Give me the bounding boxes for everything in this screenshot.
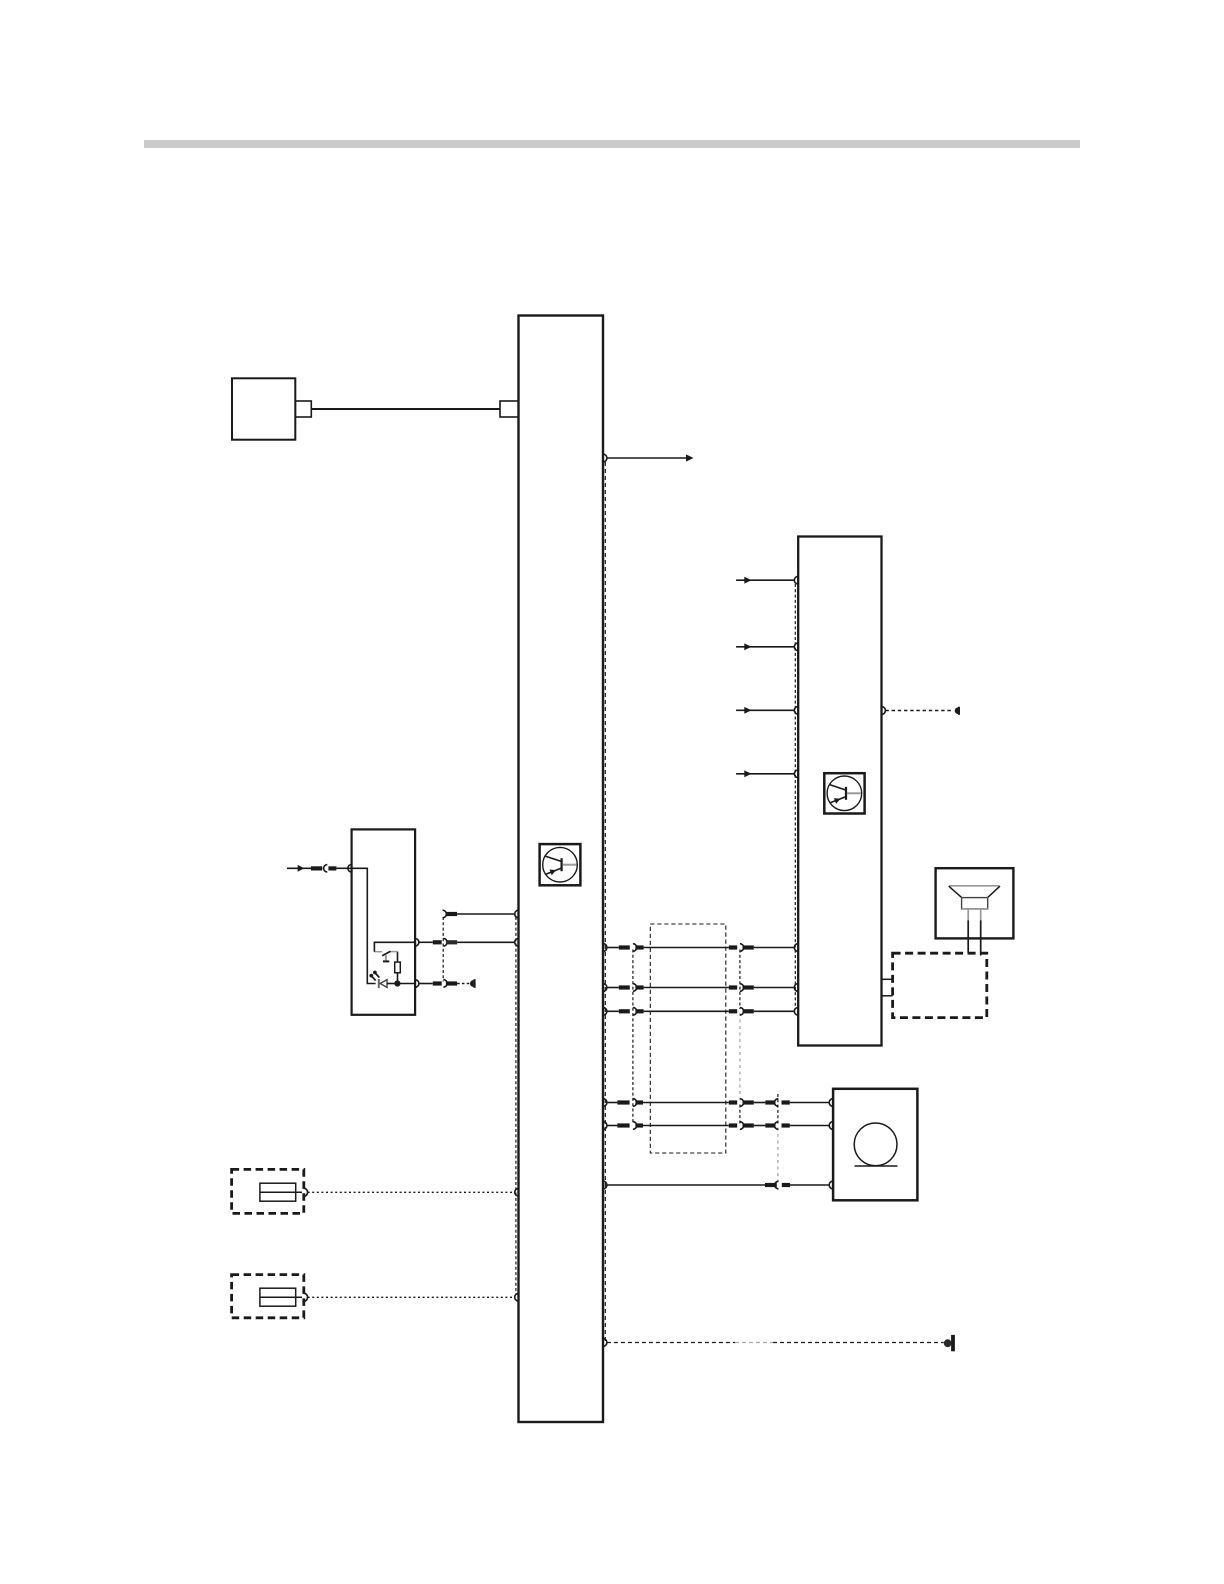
transistor Q2 (in U2) xyxy=(824,773,864,813)
wire from node A to S1 right edge xyxy=(397,983,415,985)
wire D (U1 to motor, y1102.5) xyxy=(603,1099,833,1107)
dashed connector line along U2 left edge xyxy=(794,584,796,1009)
connector nub on M1 xyxy=(295,401,311,417)
wire F (U1 to motor, y1185) xyxy=(603,1181,833,1189)
amplifier U2 (right tall box) xyxy=(798,537,881,1046)
wire inside S1 top run xyxy=(374,942,415,951)
fuse box F1 (dashed) xyxy=(232,1169,304,1213)
header bar xyxy=(144,140,1080,148)
arrow input 3 to U2 (y710.3) xyxy=(736,706,798,714)
arrow input 4 to U2 (y773.8) xyxy=(736,770,798,778)
wire M1 to U1 xyxy=(311,408,500,410)
dashed connector column at x740 (black parts) xyxy=(739,950,741,1010)
dashed connector column at x778 (black part) xyxy=(777,1094,779,1124)
wire B (U1 to U2, y987.5) xyxy=(603,984,798,992)
wire C (U1 to U2, y1011.3) xyxy=(603,1007,798,1015)
dashed connector column at x778 (gray part) xyxy=(777,1128,779,1184)
node on U1 right edge (top output) xyxy=(603,454,607,462)
wire E (U1 to motor, y1125.5) xyxy=(603,1122,833,1130)
U2 dashed output (y710.5) xyxy=(882,707,961,715)
dashed connector column at x740 (gray part) xyxy=(739,1013,741,1101)
dashed connector column at x633 xyxy=(632,950,634,1124)
wire 1 (stub connector to U1, y914) xyxy=(443,910,519,918)
module M1 (top-left box) xyxy=(232,378,295,439)
fuse F2 symbol xyxy=(260,1288,296,1306)
amp dashed box (below speaker) xyxy=(893,953,987,1017)
bottom dashed output of U1 (y1342.5) xyxy=(603,1335,955,1351)
fuse wire 2 (F2 to U1, y1297.3) xyxy=(303,1293,518,1301)
resistor R1 xyxy=(395,952,401,984)
speaker lead wires xyxy=(968,910,981,956)
wire 3 (S1 ground stub, y983.5) xyxy=(419,979,476,988)
fuse wire 1 (F1 to U1, y1192.3) xyxy=(303,1188,518,1196)
incoming supply wire to S1 xyxy=(287,865,352,872)
inner dashed rectangle (harness) xyxy=(650,924,726,1153)
fuse F1 symbol xyxy=(260,1183,296,1201)
wire A (U1 to U2, y947.5) xyxy=(603,944,798,952)
dashed connector column at x441 xyxy=(442,917,444,982)
fuse box F2 (dashed) xyxy=(232,1275,304,1318)
arrow input 2 to U2 (y646.8) xyxy=(736,643,798,651)
chevrons on S1 right edge xyxy=(415,939,419,947)
motor box M2 xyxy=(833,1089,917,1201)
wire 2 (S1 to U1, y942) xyxy=(419,938,519,946)
arrow input 1 to U2 (y580) xyxy=(736,576,798,584)
tab between U2 and amp dashed box xyxy=(882,978,893,980)
LED D1 xyxy=(379,979,398,988)
wire arrow from U1 top output xyxy=(607,454,694,461)
switch SW1 (push button) xyxy=(374,951,397,961)
wire inside S1 from entry down xyxy=(352,868,376,983)
node A (junction dot in S1) xyxy=(394,980,400,986)
LED emission arrows xyxy=(369,971,379,981)
dashed connector line along U1 left edge xyxy=(515,917,517,1294)
speaker symbol (horn) xyxy=(949,886,1000,909)
speaker box SP1 xyxy=(936,868,1014,938)
dashed connector line along U1 right edge xyxy=(604,462,606,1343)
ECU U1 (central tall box) xyxy=(519,316,604,1423)
switch module S1 (left box) xyxy=(352,829,416,1014)
chevron on S1 left edge xyxy=(348,865,352,873)
motor symbol circle xyxy=(854,1123,897,1166)
transistor Q1 (in U1) xyxy=(540,844,581,885)
connector nub on U1 left edge xyxy=(500,401,519,417)
motor base line xyxy=(855,1165,898,1167)
